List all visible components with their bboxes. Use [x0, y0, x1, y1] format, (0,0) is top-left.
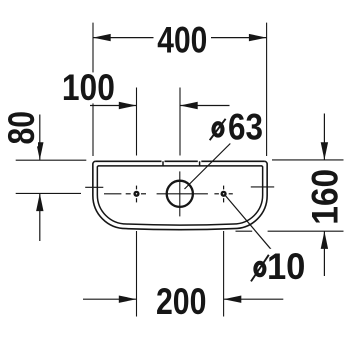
lid joint notch right: [199, 161, 201, 166]
cistern outer outline: [93, 161, 267, 229]
dimension 200: right tail with arrowhead: [224, 298, 284, 300]
svg-text:63: 63: [228, 106, 263, 147]
svg-text:100: 100: [62, 67, 115, 108]
left wall inlet centermark: [85, 186, 103, 188]
svg-text:80: 80: [1, 111, 42, 145]
dimension 400: dimension line: [93, 37, 267, 39]
label 200: [153, 285, 208, 317]
cistern lid top edge segments (with joint notches): [96, 160, 265, 162]
label 160 (rotated): [309, 167, 342, 227]
dimension 400: right arrowhead: [249, 34, 267, 41]
leader line o63: [185, 144, 231, 190]
dimension 200: right extension line: [223, 231, 225, 317]
svg-text:200: 200: [156, 281, 207, 322]
flush hole circle o63: [167, 181, 193, 207]
circle crosshair vertical: [179, 171, 181, 216]
dimension 80: top arrow: [39, 115, 41, 160]
o63 diameter symbol: [210, 119, 226, 140]
dimension 400: extension line left: [92, 23, 94, 156]
lid joint notch left: [162, 161, 164, 166]
label 80 (rotated): [5, 109, 38, 146]
left hole ticks: [126, 186, 146, 203]
dimension 100: right tail with arrowhead: [180, 105, 230, 107]
dimension 100: extension line at center: [179, 88, 181, 156]
svg-text:400: 400: [157, 20, 207, 61]
dimension 100: extension line at hole: [136, 88, 138, 156]
left fixing hole o10: [133, 191, 139, 197]
label o63: [206, 111, 265, 142]
dimension 80: top extension line: [16, 159, 87, 161]
circle crosshair horizontal (part of centerline): [157, 193, 208, 195]
dimension 160: bottom arrow: [323, 231, 325, 276]
dimension 100: left tail with arrowhead: [90, 105, 137, 107]
dimension 80: bottom arrow: [39, 193, 41, 241]
label 400: [154, 24, 212, 55]
dimension 160: top arrow: [323, 114, 325, 160]
o10 diameter symbol: [251, 255, 269, 282]
dimension 160: top extension line: [272, 159, 344, 161]
cistern inner outline: [97, 166, 262, 225]
svg-text:160: 160: [305, 169, 346, 225]
right fixing hole o10: [221, 191, 227, 197]
right wall inlet centermark: [251, 186, 274, 188]
dimension 80: bottom extension line: [16, 192, 81, 194]
dimension 160: bottom extension line (gap for leader): [236, 230, 344, 232]
dimension 200: left extension line: [136, 231, 138, 317]
label 100: [62, 72, 119, 103]
right hole ticks: [214, 186, 232, 203]
dimension 400: extension line right: [266, 23, 268, 156]
dimension 400: left arrowhead: [93, 34, 111, 41]
horizontal centerline dash inside tank: [104, 193, 121, 195]
leader line o10: [225, 195, 271, 249]
svg-text:10: 10: [267, 246, 306, 287]
label o10: [248, 249, 308, 281]
dimension 200: left tail with arrowhead: [83, 298, 137, 300]
